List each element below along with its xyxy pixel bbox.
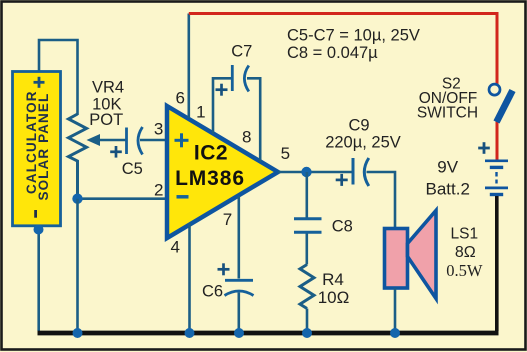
solar panel (CALCULATOR SOLAR PANEL) [13,72,61,226]
svg-text:1: 1 [196,103,205,122]
wire pin 6 to +V rail [188,14,191,119]
wire R4 to ground bus [306,309,309,332]
svg-text:3: 3 [154,120,163,139]
wire switch to battery + (red) [496,122,499,161]
note capacitor values [287,26,420,62]
battery Batt.2 + polarity mark [478,142,490,154]
junction ground bus / LS1 [390,328,400,338]
svg-text:C5-C7 = 10µ, 25V: C5-C7 = 10µ, 25V [287,26,420,44]
label C9 220u 25V [325,117,401,152]
wire C8 branch [305,172,308,218]
junction ground bus / pin 4 [185,328,195,338]
wire pin 4 to ground bus [188,223,191,331]
C5 + polarity mark [110,146,122,158]
svg-text:C9: C9 [348,117,369,135]
wire C8 to R4 [305,234,308,265]
svg-text:6: 6 [175,89,184,108]
junction node output [301,167,311,177]
label S2 ON/OFF SWITCH [417,75,478,121]
wire C7 to pin 8 riser [247,78,260,162]
op-amp - input mark [177,195,189,199]
wire pin 1 riser to C7 [213,78,231,134]
op-amp IC2 LM386 triangle [167,106,278,238]
svg-text:C6: C6 [202,283,223,301]
svg-text:8Ω: 8Ω [455,244,476,261]
svg-text:10Ω: 10Ω [318,288,350,307]
capacitor C6 [225,280,254,295]
panel - polarity mark [34,210,37,218]
battery Batt.2 [485,161,508,195]
svg-text:5: 5 [281,144,290,163]
capacitor C7 [232,65,249,92]
svg-text:8: 8 [242,128,251,147]
wire C6 to ground bus [238,293,241,332]
junction ground bus / R4 [302,328,312,338]
panel + polarity mark [34,77,45,88]
potentiometer VR4 zigzag [69,114,87,199]
svg-text:7: 7 [223,210,232,229]
svg-text:220µ, 25V: 220µ, 25V [325,134,401,152]
svg-text:0.5W: 0.5W [446,261,483,280]
junction node pin2/VR4 [72,194,82,204]
C9 + polarity mark [336,174,348,186]
capacitor C5 [127,127,143,155]
switch S2 [489,84,513,122]
svg-text:R4: R4 [322,270,344,289]
wire pin 5 output [278,171,353,174]
label R4 10ohm [318,270,350,307]
wire pin 2 to feedback node [78,197,168,200]
capacitor C9 [353,158,369,186]
VR4 wiper arrow [87,134,127,146]
svg-text:2: 2 [154,180,163,199]
svg-text:Batt.2: Batt.2 [425,180,469,199]
svg-text:C8: C8 [332,217,353,235]
C6 + polarity mark [218,263,230,275]
resistor R4 [300,265,314,309]
ground bus (black) [38,331,499,336]
wire C9 to LS1 [367,172,396,229]
svg-text:C8 = 0.047µ: C8 = 0.047µ [287,44,378,62]
op-amp + input mark [175,133,189,147]
wire node to ground bus [76,199,79,331]
wire battery - to ground bus (black) [495,196,499,331]
svg-text:SWITCH: SWITCH [417,105,478,122]
wire panel + terminal to VR4 top [39,40,78,115]
svg-text:VR4: VR4 [92,79,124,97]
label VR4 10K POT [89,79,124,129]
svg-text:C7: C7 [231,42,252,60]
svg-text:4: 4 [170,238,179,257]
svg-text:POT: POT [89,111,123,129]
panel - terminal junction dot [34,225,44,235]
label LS1 8ohm 0.5W [446,225,483,280]
svg-text:LS1: LS1 [451,225,479,242]
svg-text:9V: 9V [437,158,458,177]
+V rail (red) [189,14,497,85]
C7 + polarity mark [216,84,228,96]
capacitor C8 [294,219,322,233]
svg-text:C5: C5 [122,160,143,178]
svg-text:IC2: IC2 [194,142,228,165]
wire LS1 to ground bus [394,288,397,331]
wire panel - terminal to ground bus [37,227,40,331]
svg-text:SOLAR PANEL: SOLAR PANEL [36,93,51,201]
junction ground bus / VR4 return [73,328,83,338]
wire pin 7 to C6 [238,196,241,279]
svg-text:LM386: LM386 [175,167,245,190]
junction ground bus / C6 [234,328,244,338]
label 9V Batt.2 [425,158,469,199]
speaker LS1 [385,211,437,299]
wire C5 to pin 3 [140,139,167,142]
